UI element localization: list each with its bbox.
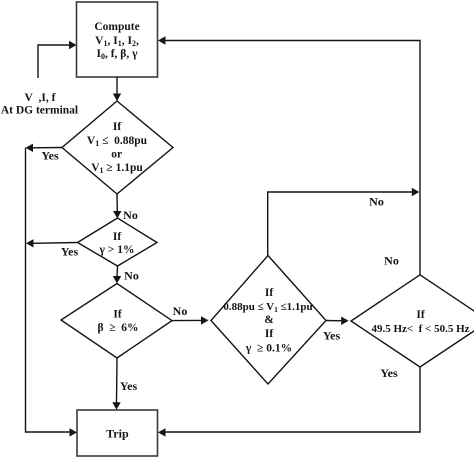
wire: Compute bottom to diamond 1 [113, 77, 121, 101]
wire: top feedback rail from diamond 5 into Compute right [158, 36, 420, 274]
label: V,I,f At DG terminal [1, 92, 78, 117]
label: No above diamond 5 [384, 254, 399, 268]
svg-text:No: No [369, 195, 384, 209]
svg-text:Trip: Trip [106, 427, 129, 441]
svg-text:γ ≥ 0.1%: γ ≥ 0.1% [245, 343, 292, 355]
svg-text:Yes: Yes [41, 149, 59, 163]
svg-text:&: & [264, 314, 274, 326]
process box: Trip [77, 410, 158, 456]
wire: diamond 1 No down to diamond 2 [113, 194, 138, 222]
svg-text:Yes: Yes [61, 245, 79, 259]
process box: Compute [77, 2, 158, 77]
svg-text:Yes: Yes [120, 379, 138, 393]
svg-text:Compute: Compute [94, 21, 139, 33]
wire: input elbow into Compute left [38, 41, 77, 78]
svg-text:No: No [384, 254, 399, 268]
wire: diamond 4 No up and right to top rail [268, 188, 420, 256]
wire: diamond 5 Yes down and left to Trip [158, 366, 420, 437]
svg-text:or: or [111, 148, 122, 160]
wire: diamond 3 Yes down to Trip [112, 358, 137, 410]
svg-text:If: If [265, 287, 273, 299]
wire: diamond 1 Yes to left rail [26, 144, 63, 163]
svg-text:At DG terminal: At DG terminal [1, 105, 78, 117]
svg-text:If: If [113, 231, 121, 243]
svg-text:0.88pu ≤ V1 ≤1.1pu: 0.88pu ≤ V1 ≤1.1pu [223, 301, 312, 314]
decision diamond 3: beta >= 6% [61, 284, 172, 359]
wire: diamond 2 No down to diamond 3 [113, 266, 139, 284]
svg-text:No: No [124, 269, 139, 283]
wire: diamond 3 No right to diamond 4 [172, 304, 209, 325]
wire: left rail down to Trip [26, 148, 78, 437]
svg-text:Yes: Yes [380, 366, 398, 380]
wire: diamond 2 Yes to left rail [26, 239, 78, 258]
svg-text:No: No [123, 208, 138, 222]
svg-text:If: If [113, 121, 121, 133]
svg-text:Yes: Yes [323, 328, 341, 342]
decision diamond 2: gamma > 1% [78, 218, 158, 266]
svg-text:β ≥ 6%: β ≥ 6% [97, 322, 138, 334]
svg-text:If: If [113, 309, 121, 321]
svg-text:If: If [265, 328, 273, 340]
svg-text:V1 ≥ 1.1pu: V1 ≥ 1.1pu [91, 162, 143, 175]
svg-text:If: If [416, 309, 424, 321]
svg-text:49.5 Hz< f < 50.5 Hz: 49.5 Hz< f < 50.5 Hz [371, 323, 469, 335]
svg-text:γ > 1%: γ > 1% [99, 244, 135, 256]
svg-text:V ,I, f: V ,I, f [25, 92, 56, 104]
decision diamond 1: voltage limits [62, 101, 173, 194]
decision diamond 4: voltage band and gamma [211, 256, 326, 385]
svg-text:No: No [173, 304, 188, 318]
decision diamond 5: frequency window (clipped at right edge) [351, 275, 474, 367]
wire: diamond 4 Yes right to diamond 5 [323, 317, 349, 343]
